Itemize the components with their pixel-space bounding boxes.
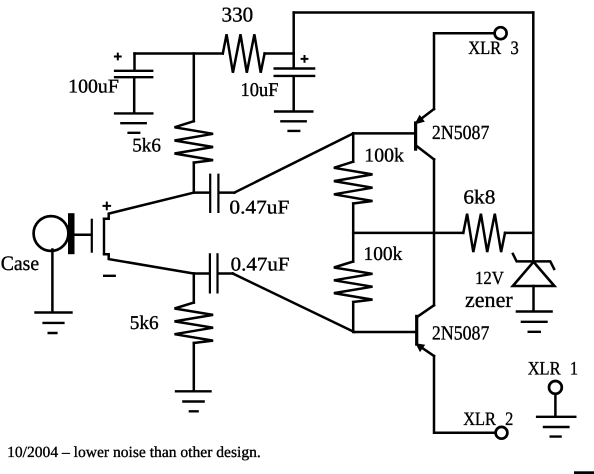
capsule diaphragm bar: [68, 213, 75, 254]
transistor Q1 emitter arrow: [416, 116, 424, 123]
wire R3 to ground: [193, 343, 196, 390]
svg-text:XLR 2: XLR 2: [463, 409, 513, 430]
capacitor C4 0.47uF lower left wire: [194, 272, 209, 275]
capacitor C3 right wire: [220, 191, 235, 194]
svg-text:10uF: 10uF: [241, 80, 279, 101]
wire riser at C2 node: [292, 13, 295, 54]
capacitor C3 0.47uF upper left wire: [194, 191, 209, 194]
gate plate: [91, 219, 93, 253]
transistor Q2 emitter diagonal: [417, 344, 434, 356]
ground below XLR1: [536, 417, 577, 437]
ground below microphone: [34, 313, 72, 334]
node A wire upper base: [353, 132, 415, 135]
terminal XLR 2: [496, 427, 508, 439]
capacitor C1 100uF plus lead: [133, 54, 136, 70]
wire R6 right to rail: [505, 232, 533, 235]
transistor Q2 2N5087 base bar: [415, 315, 418, 346]
resistor R330: [223, 34, 265, 72]
svg-text:0.47uF: 0.47uF: [231, 255, 290, 276]
svg-text:330: 330: [222, 2, 254, 26]
svg-text:10/2004 – lower noise than oth: 10/2004 – lower noise than other design.: [7, 444, 261, 461]
microphone capsule circle: [34, 216, 69, 251]
svg-text:2N5087: 2N5087: [432, 322, 490, 344]
terminal XLR 1: [549, 381, 562, 394]
wire diaphragm to gate plate: [75, 234, 91, 237]
capacitor C3 0.47uF plates: [210, 174, 218, 213]
JFET channel bar: [103, 218, 105, 254]
minus sign mic: [103, 275, 116, 277]
transistor Q2 collector diagonal: [417, 305, 434, 317]
svg-text:Case: Case: [1, 253, 39, 275]
wire mic body to ground: [51, 250, 54, 312]
wire top horizontal to right rail: [294, 11, 534, 14]
transistor Q1 collector diagonal: [417, 146, 434, 159]
node junction top rail to R2: [193, 54, 196, 122]
plus sign C1: [114, 53, 122, 61]
capacitor C2 10uF top lead: [292, 54, 295, 68]
capacitor C1 100uF bottom lead: [133, 78, 136, 112]
svg-text:5k6: 5k6: [130, 313, 159, 334]
wire R4 bottom through mid node to R5: [352, 204, 355, 262]
svg-text:5k6: 5k6: [132, 136, 161, 157]
wire R5 bottom to lower base wire: [353, 302, 415, 332]
capacitor C4 0.47uF plates: [210, 253, 218, 293]
JFET source lead: [104, 254, 194, 273]
wire mid rail from divider to R6: [353, 232, 463, 235]
svg-text:0.47uF: 0.47uF: [229, 197, 289, 218]
wire node A down to R4: [352, 133, 355, 161]
wire Q2 emitter down to XLR2: [434, 356, 496, 433]
transistor Q2 emitter arrow: [417, 344, 424, 350]
wire right rail down to zener: [532, 13, 535, 262]
zener diode D1 triangle: [513, 262, 555, 286]
capacitor C4 right wire: [219, 272, 233, 275]
transistor Q1 emitter diagonal: [417, 109, 434, 122]
svg-text:zener: zener: [465, 287, 513, 312]
ground below zener: [516, 312, 553, 332]
capacitor C2 10uF plates: [274, 69, 316, 76]
ground below R3: [175, 391, 212, 411]
ground below C1: [114, 113, 154, 132]
zener diode D1 cathode bar: [513, 254, 554, 269]
corner artifact bottom right: [574, 471, 594, 474]
capacitor C2 10uF bottom lead: [292, 77, 295, 110]
plus sign C2: [301, 55, 309, 63]
resistor R6 6k8: [463, 214, 505, 252]
wire C3 to upper base node: [234, 133, 353, 192]
wire XLR1 to ground: [554, 394, 557, 415]
transistor Q1 2N5087 base bar: [414, 121, 417, 150]
JFET drain lead: [104, 193, 194, 219]
svg-text:100k: 100k: [364, 145, 404, 166]
resistor R4 100k upper: [334, 162, 373, 204]
svg-text:6k8: 6k8: [463, 186, 495, 208]
wire C4 to lower base node: [233, 274, 354, 333]
terminal XLR 3: [495, 27, 507, 39]
resistor R5 100k lower: [334, 262, 373, 303]
wire Q1 collector down to Q2 collector: [433, 159, 436, 305]
svg-text:100k: 100k: [364, 244, 403, 265]
svg-text:2N5087: 2N5087: [432, 122, 490, 144]
wire C4 node down to R3: [193, 274, 196, 303]
wire R2 bottom to C3 node: [193, 163, 196, 193]
ground below C2: [274, 112, 314, 131]
resistor R2 5k6 upper: [175, 121, 214, 162]
wire top rail from C1 to R330: [135, 52, 223, 55]
svg-text:XLR 1: XLR 1: [528, 359, 578, 380]
wire D1 anode to ground: [532, 286, 535, 310]
wire R330 right to riser: [265, 52, 294, 55]
capacitor C1 100uF plates: [114, 71, 153, 77]
wire XLR3 stub: [434, 33, 495, 109]
plus sign mic: [103, 202, 112, 211]
svg-text:100uF: 100uF: [68, 77, 119, 98]
svg-text:XLR 3: XLR 3: [468, 38, 519, 59]
resistor R3 5k6 lower: [175, 303, 214, 343]
